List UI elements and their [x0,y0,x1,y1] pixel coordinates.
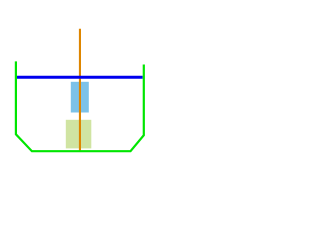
water line [17,76,143,79]
blue block [71,82,89,113]
beaker outline [16,61,144,151]
yellow-green block [66,120,92,149]
orange rod [79,29,81,151]
